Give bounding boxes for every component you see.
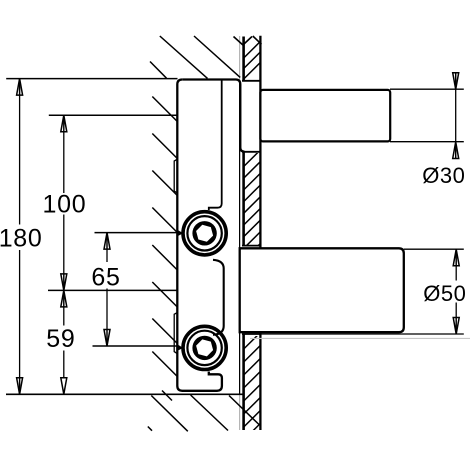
left mounting tab upper — [174, 160, 177, 193]
svg-text:Ø50: Ø50 — [423, 281, 466, 306]
pipe 30 outline — [260, 90, 390, 141]
extension lines pipe 50 right — [261, 249, 464, 334]
dimension diameter 50 line — [455, 249, 457, 334]
extension lines pipe 30 right — [390, 89, 464, 142]
dimension 59 line — [63, 290, 65, 394]
wedge at top port center — [177, 229, 184, 236]
wall left face thick segments — [242, 37, 245, 431]
dimension diameter 50 arrows — [453, 249, 459, 334]
extension line pipe30 axis (100) — [49, 114, 177, 116]
wall top V marks — [234, 36, 262, 45]
dimension 180 line — [19, 79, 21, 395]
left mounting tab lower — [174, 313, 177, 354]
dimension diameter 30 arrows — [453, 73, 459, 159]
wedge at bottom port center — [177, 344, 184, 351]
dimension 59 arrows — [61, 290, 67, 394]
dimension diameter 30 line — [455, 89, 457, 142]
wall hole cap lines — [242, 81, 261, 334]
faint gray line below pipe 50 — [250, 337, 470, 339]
pipe 50 outline — [240, 248, 404, 332]
svg-text:180: 180 — [0, 225, 43, 253]
dimension 100 arrows — [61, 115, 67, 290]
dimension 65 arrows — [104, 233, 110, 346]
wall back face line — [259, 36, 261, 430]
extension line top port center (65) — [95, 232, 178, 234]
body main outline — [177, 80, 244, 391]
svg-text:65: 65 — [91, 263, 120, 291]
extension line pipe50 axis (100/59) — [48, 289, 177, 291]
dimension diameter 50 text — [423, 281, 466, 306]
dimension 180 arrows — [17, 79, 23, 395]
body bump between ports — [213, 260, 224, 335]
surface mark above body 1 — [160, 36, 208, 78]
dimension 65 line — [106, 233, 108, 346]
body internal vertical line above top port — [209, 80, 222, 211]
surface mark above body 2 — [194, 36, 240, 77]
dimension 100 text — [42, 191, 86, 219]
dimension 65 text — [91, 263, 120, 291]
extension line top (180) — [6, 78, 177, 80]
floor line surface marks — [148, 395, 260, 431]
dimension 180 text — [0, 225, 43, 253]
svg-text:Ø30: Ø30 — [422, 163, 465, 188]
surface marks on body left edge — [152, 97, 177, 401]
surface mark on top extension line — [150, 62, 167, 79]
dimension 100 line — [63, 115, 65, 290]
svg-text:100: 100 — [42, 191, 86, 219]
svg-text:59: 59 — [46, 325, 75, 353]
dimension 59 text — [46, 325, 75, 353]
wall hatch top segment — [244, 42, 261, 80]
extension line bottom port center (65) — [93, 345, 178, 347]
dimension diameter 30 text — [422, 163, 465, 188]
bottom port fitting rings — [183, 326, 226, 369]
dimension line continuations through arrows — [20, 73, 457, 395]
top port fitting rings — [183, 212, 226, 255]
wall front face thin line — [239, 36, 241, 430]
floor reference line — [6, 393, 244, 395]
